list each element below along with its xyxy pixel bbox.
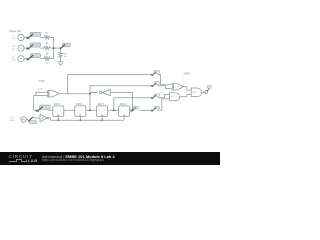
wire R1 to bus <box>50 37 53 39</box>
svg-text:Q: Q <box>126 109 128 111</box>
svg-text:DFF4: DFF4 <box>120 103 127 106</box>
svg-text:DFF3: DFF3 <box>98 103 105 106</box>
svg-text:D: D <box>120 109 122 111</box>
not gate U1 (pointing left) <box>102 90 110 96</box>
svg-text:R2: R2 <box>46 43 50 45</box>
wire SW6 to tap4 <box>139 109 152 111</box>
wire tap4 to AND2 <box>158 99 170 111</box>
wire XOR1 upper input stub <box>36 92 48 95</box>
svg-text:5 V: 5 V <box>12 38 16 40</box>
svg-text:Q: Q <box>60 109 62 111</box>
flip-flop DFF2 <box>75 106 86 117</box>
wire XOR2 out to AND3 <box>183 87 191 90</box>
wire R3 to bus <box>50 58 53 60</box>
not gate U1 output wire to node <box>90 92 98 94</box>
voltage source V3 <box>18 56 24 62</box>
wire tap2 to XOR2 <box>158 86 172 89</box>
wire DFF2 Q to DFF3 D <box>86 109 97 111</box>
wire V3 to SW3 <box>24 58 28 60</box>
resistor R3 <box>44 57 50 60</box>
svg-text:AND: AND <box>171 96 175 99</box>
wire R4 to ground <box>60 58 62 62</box>
wire V4 to SW7 <box>26 119 28 121</box>
svg-text:5 V: 5 V <box>12 59 16 61</box>
wire buffer to clock bus <box>49 118 124 120</box>
svg-text:XOR: XOR <box>175 87 179 89</box>
resistor R2 <box>44 47 50 50</box>
wire node to R4 <box>60 48 62 52</box>
wire riser tap1 <box>68 75 152 94</box>
wire SW1 to R1 <box>41 37 45 39</box>
svg-text:R1: R1 <box>46 33 50 35</box>
voltage source V2 <box>18 45 24 51</box>
resistor R4 <box>59 52 62 58</box>
wire SW2 to R2 <box>41 47 45 49</box>
switch SW1 <box>27 32 41 38</box>
wire SW7 to buffer <box>33 117 40 119</box>
switch SW10 on tap3 <box>151 94 159 99</box>
svg-text:1k: 1k <box>46 63 49 65</box>
ground <box>58 61 64 63</box>
switch SW11 on tap4 <box>151 106 159 111</box>
svg-text:D: D <box>98 109 100 111</box>
wire DFF3 Q to DFF4 D <box>108 109 119 111</box>
svg-text:D: D <box>76 109 78 111</box>
wire AND3 output <box>202 91 206 93</box>
wire DFF2 clock pin <box>79 116 81 120</box>
wire XOR1 output to node <box>58 93 90 95</box>
probe P1 <box>205 90 208 93</box>
wire riser tap2 <box>90 86 152 111</box>
switch SW7 <box>28 117 33 122</box>
wire V1 to SW1 <box>24 37 28 39</box>
wire R2 to bus <box>50 47 53 49</box>
node junction dot <box>53 47 55 49</box>
resistor R1 <box>44 36 50 39</box>
wire DFF4 Q to SW6 <box>130 109 131 111</box>
bottom credit bar <box>0 152 220 165</box>
svg-text:XOR2: XOR2 <box>184 73 191 76</box>
wire V2 to SW2 <box>24 47 28 49</box>
svg-text:SQU: SQU <box>10 120 15 122</box>
switch SW2 <box>27 43 41 49</box>
wire feedback wrap to XOR1 lower input and DFF1 D <box>34 96 49 111</box>
wire tap3 to AND2 <box>158 95 170 98</box>
buffer U2 (schmitt inverter) <box>40 114 47 122</box>
wire DFF1 Q to DFF2 D <box>64 109 75 111</box>
flip-flop DFF3 <box>97 106 108 117</box>
not gate U1 input wire from DFF4 <box>110 93 132 111</box>
svg-text:10k: 10k <box>64 56 68 58</box>
svg-text:Toggle SW: Toggle SW <box>9 29 22 33</box>
wire DFF4 clock pin <box>123 116 125 120</box>
wire bus to node <box>54 47 61 49</box>
wire AND2 out to AND3 <box>180 95 192 97</box>
wire DFF1 clock pin <box>57 116 59 120</box>
flip-flop DFF1 <box>53 106 64 117</box>
svg-text:XOR1: XOR1 <box>39 80 46 83</box>
switch SW8 on tap1 <box>151 70 159 75</box>
svg-text:5 V: 5 V <box>12 49 16 51</box>
svg-text:AND: AND <box>192 91 196 94</box>
wire riser tap3 <box>114 98 152 111</box>
switch SW6 <box>131 106 139 111</box>
switch SW3 <box>27 54 41 60</box>
flip-flop DFF4 <box>119 106 130 117</box>
gate AND3 <box>191 88 201 97</box>
svg-text:4070: 4070 <box>38 89 44 91</box>
svg-text:DFF1: DFF1 <box>54 103 61 106</box>
svg-text:R3: R3 <box>46 54 50 56</box>
switch SW4 <box>62 43 70 47</box>
wire DFF3 clock pin <box>101 116 103 120</box>
op XOR1 gate <box>48 90 58 97</box>
svg-text:Q: Q <box>104 109 106 111</box>
switch SW5 <box>36 105 50 111</box>
switch SW9 on tap2 <box>151 82 159 87</box>
clock source V4 <box>21 117 27 123</box>
wire vertical bus joining R1 R2 R3 <box>53 38 55 59</box>
wire SW3 to R3 <box>41 58 45 60</box>
wire SW5 to DFF1 <box>49 109 53 111</box>
voltage source V1 <box>18 34 24 40</box>
wire tap1 to XOR2 <box>158 75 172 85</box>
svg-text:DFF2: DFF2 <box>76 103 83 106</box>
svg-text:Q: Q <box>82 109 84 111</box>
svg-text:D: D <box>54 109 56 111</box>
gate XOR2 <box>173 83 183 90</box>
gate AND2 <box>170 93 180 101</box>
